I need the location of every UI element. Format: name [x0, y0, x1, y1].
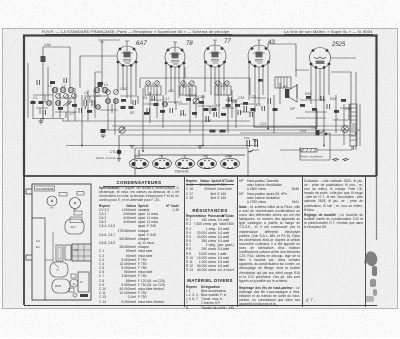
socket labels [134, 154, 232, 174]
resistor R35 [306, 96, 311, 99]
svg-text:R14: R14 [330, 97, 336, 101]
bottom rule [24, 305, 377, 307]
svg-text:C11: C11 [168, 89, 174, 93]
inner box output [254, 110, 317, 127]
wire link w23 [120, 96, 157, 104]
chassis label vue arriere [35, 186, 55, 191]
wire link w27 [300, 100, 352, 112]
wire link w30 [178, 96, 252, 112]
wire left v9 [87, 90, 89, 121]
resistor R27 [160, 110, 165, 113]
capacitor C24 [311, 126, 320, 136]
wire V1 pin drops [118, 63, 136, 104]
svg-text:C1: C1 [33, 96, 37, 100]
wire link w26 [240, 98, 266, 104]
pilot lamp LP [342, 126, 349, 133]
rule v right edge [364, 177, 367, 307]
resistor R2 [39, 101, 44, 104]
wire right v3 [359, 104, 361, 146]
capacitor C41 [321, 96, 324, 101]
capacitor C39 [327, 104, 330, 109]
wire antenna lead [43, 47, 70, 118]
svg-text:2525: 2525 [225, 154, 232, 158]
capacitor C38 [262, 106, 265, 111]
svg-text:2525: 2525 [331, 42, 346, 48]
tube V2 78 [165, 47, 185, 68]
chassis box C20 [70, 217, 82, 223]
resistor R12 [220, 130, 226, 133]
mains plug arrows [332, 158, 349, 161]
col3 table [186, 179, 234, 310]
rule h under cond header [103, 185, 175, 188]
svg-text:C17: C17 [163, 97, 169, 101]
col2 condensateurs table [99, 181, 179, 304]
capacitor C33 [79, 108, 82, 113]
grid cap stubs [125, 40, 261, 47]
wire mid v1 [190, 88, 203, 145]
tube V3 77 [204, 45, 226, 67]
svg-text:77: 77 [224, 39, 231, 45]
coil L4 [94, 87, 100, 93]
svg-text:R9: R9 [256, 103, 260, 107]
wire link w29 [296, 104, 349, 120]
capacitor C43 [181, 110, 184, 115]
wire V2 pin drops [166, 63, 184, 104]
resistor R36 [341, 99, 346, 102]
trimmer CT5 [106, 90, 111, 95]
svg-text:43: 43 [203, 154, 207, 158]
output transformer T4 [275, 77, 291, 88]
capacitor C22 [244, 136, 250, 147]
resistor R37 [186, 98, 191, 101]
svg-text:L6: L6 [186, 82, 190, 86]
resistor R1 [31, 101, 36, 104]
svg-text:R1: R1 [143, 96, 147, 100]
svg-text:L8: L8 [221, 82, 225, 86]
wire link w20 [33, 95, 76, 105]
rule v col2-col3 [183, 177, 186, 307]
rule h under col3 top [186, 183, 234, 186]
resistor R4 [129, 106, 134, 109]
svg-text:L4: L4 [150, 82, 154, 86]
wire link w22 [36, 108, 77, 118]
wire power top [295, 58, 356, 72]
chassis coil box 2 [65, 245, 71, 260]
trimmer CT10 [190, 81, 194, 85]
node A junction dots [42, 118, 357, 152]
trimmer CT12 [225, 81, 229, 85]
coil L7 [55, 100, 60, 105]
resistor R11 [210, 130, 216, 133]
chassis antenna tabs [26, 189, 32, 260]
wire left v5 [59, 93, 61, 118]
ballast resistor RB [350, 104, 357, 150]
resistor R24 [87, 110, 92, 113]
chassis tube 77 top [47, 196, 57, 210]
svg-text:C21: C21 [260, 122, 266, 126]
resistor R3 [121, 106, 126, 109]
chassis trimmer box 1 [59, 193, 67, 197]
svg-text:R7: R7 [216, 104, 220, 108]
resistor R20 [50, 81, 55, 84]
wire link w25 [198, 106, 234, 114]
tone control CTL [110, 135, 121, 162]
chassis HP box [78, 272, 89, 292]
svg-text:C22: C22 [244, 136, 250, 140]
trimmer CT2 [56, 94, 61, 99]
svg-text:Résist. et circuit: Résist. et circuit [96, 156, 116, 160]
resistor R7 [212, 108, 217, 111]
capacitor C35 [170, 108, 173, 113]
capacitor C1 [84, 97, 87, 109]
svg-text:78: 78 [159, 154, 163, 158]
chassis tube 77b blob [50, 262, 68, 277]
antenna coupler [98, 82, 103, 87]
wire link w21 [84, 96, 118, 113]
svg-text:43: 43 [73, 282, 77, 286]
chassis gang condenser [72, 244, 91, 261]
header right underline [284, 34, 373, 35]
svg-text:43: 43 [268, 40, 275, 46]
capacitor C42 [152, 96, 155, 101]
socket S 43 [198, 155, 217, 169]
socket box [135, 148, 248, 175]
rule v col4-col5 [301, 177, 304, 307]
speaker SP [283, 84, 297, 102]
svg-text:C23: C23 [253, 148, 259, 152]
chassis transfo compartment [32, 218, 45, 300]
resistor R6 [204, 108, 209, 111]
coil L6 [46, 100, 51, 105]
svg-text:78: 78 [73, 208, 77, 212]
trimmer CT4 [72, 94, 77, 99]
switch S2 [317, 130, 327, 135]
wire mid v2 [228, 90, 236, 133]
capacitor C31 [64, 78, 67, 83]
volume potentiometer P1 [119, 127, 125, 133]
wire V5 pin drops [311, 64, 329, 145]
trimmer CT6 [114, 90, 119, 95]
resistor R8 [226, 104, 231, 107]
wire right v2 [351, 72, 356, 150]
socket wire filament string [139, 150, 253, 155]
wire bus B6 [66, 145, 258, 147]
svg-text:R16: R16 [345, 107, 351, 111]
wire bus B1 [32, 119, 250, 122]
svg-text:VUE ARRIÈRE: VUE ARRIÈRE [36, 186, 54, 191]
header left underline [45, 34, 232, 35]
chassis small box L [74, 211, 82, 215]
wire left v7 [74, 88, 76, 121]
socket S 6A7 [130, 155, 149, 169]
chassis tube 6A7 [65, 219, 84, 234]
ground G2 [101, 135, 106, 138]
wire left v1 [27, 63, 29, 118]
chassis dial cord [45, 232, 59, 268]
capacitor C23 [253, 140, 259, 152]
header left text [42, 29, 229, 34]
tube V5 2525 [310, 48, 331, 69]
wire interstage 1 [143, 88, 150, 151]
wire bus B4 [120, 134, 356, 136]
svg-text:2525: 2525 [55, 284, 62, 288]
coil L9 [113, 98, 118, 103]
wire left v8 [81, 95, 83, 146]
schematic bottom divider [24, 175, 377, 177]
socket S 77 [176, 155, 195, 169]
resistor R29 [221, 113, 226, 116]
trimmer CT1 [193, 98, 199, 104]
svg-text:L1: L1 [48, 84, 52, 88]
rule v col3-col4 [236, 177, 239, 307]
svg-text:Filaments: Filaments [175, 170, 189, 174]
capacitor C44 [229, 97, 232, 102]
capacitor C5 [244, 106, 247, 112]
svg-text:C18: C18 [205, 119, 211, 123]
wire left v2 [32, 100, 34, 118]
wire link w28 [280, 146, 352, 150]
resistor R25 [121, 99, 126, 102]
right edge smudges [364, 251, 377, 302]
socket S 78 [153, 155, 172, 169]
resistor R31 [300, 104, 305, 107]
svg-text:L3: L3 [104, 83, 108, 87]
ground G5 [253, 140, 258, 143]
chassis tube 43 circle [70, 279, 78, 287]
capacitor C32 [43, 110, 46, 115]
coil L11 [96, 105, 101, 110]
IF transformer T3 [215, 86, 231, 95]
antenna series cap [41, 56, 46, 62]
capacitor C7 blob [101, 129, 106, 133]
svg-text:CTL: CTL [110, 150, 116, 154]
chassis compartment labels [36, 239, 40, 249]
coil L2 [60, 87, 66, 93]
wire left v10 [95, 72, 102, 118]
svg-text:HP: HP [290, 107, 295, 111]
col5 text [304, 179, 363, 212]
tube V1 6A7 [117, 46, 137, 67]
svg-text:HP: HP [283, 85, 287, 89]
svg-text:C4: C4 [84, 91, 88, 95]
coil L5 [102, 87, 108, 93]
svg-text:C24: C24 [300, 129, 306, 133]
capacitor C3 [147, 108, 150, 114]
svg-text:77: 77 [50, 206, 54, 210]
wire grid cap V1 [80, 56, 117, 88]
svg-text:I: I [337, 117, 338, 121]
component ref labels [33, 43, 351, 133]
capacitor C34 [133, 100, 136, 105]
trimmer CT9 [181, 81, 185, 85]
wire left v12 [114, 98, 116, 135]
svg-text:4 7 ,: 4 7 , [306, 297, 316, 304]
antenna [98, 40, 120, 88]
outer frame right lower faded [376, 176, 378, 240]
wire mid v3 [274, 83, 280, 133]
wire left v4 [52, 88, 54, 118]
capacitor C30 [37, 80, 40, 85]
svg-text:C7: C7 [70, 112, 74, 116]
wire left v3 [47, 67, 49, 100]
resistor R28 [199, 101, 204, 104]
capacitor C36 [214, 112, 217, 117]
trimmer CT7 [146, 81, 150, 85]
wire top link V2-V3 AVC rail [140, 67, 250, 95]
resistor R21 [98, 82, 103, 85]
svg-text:6A7: 6A7 [136, 41, 147, 47]
col4 text [239, 179, 299, 204]
wire left v11 [107, 95, 109, 130]
capacitor C37 [238, 110, 241, 115]
chassis tube 2525 blob [52, 279, 70, 293]
trimmer CT3 [64, 94, 69, 99]
coil L8 [105, 98, 110, 103]
chassis small parts [69, 274, 88, 297]
ground G3 [130, 146, 135, 149]
wire V4 pin drops [249, 62, 268, 128]
chassis layout box [32, 184, 91, 300]
tube V4 43 [248, 45, 270, 67]
IF transformer T1 [145, 86, 161, 95]
heater resistor chauffante [300, 149, 323, 159]
resistor R5 [154, 103, 159, 106]
resistor R38 [192, 112, 197, 115]
resistor R9 [251, 108, 256, 111]
IF transformer T2 [180, 86, 196, 95]
wire bus B2 [112, 125, 356, 127]
capacitor C45 [250, 112, 253, 117]
ground G4 [198, 146, 203, 149]
resistor R39 [235, 104, 240, 107]
coil L3 [68, 87, 74, 93]
svg-text:R8: R8 [232, 100, 236, 104]
wire left v6 [67, 95, 69, 121]
resistor R26 [144, 112, 149, 115]
svg-text:R2: R2 [130, 111, 134, 115]
capacitor C2 [92, 100, 95, 106]
svg-text:78: 78 [186, 41, 193, 47]
chassis tube 78 top [70, 198, 81, 213]
svg-text:CV: CV [74, 248, 78, 252]
outer frame [24, 36, 377, 177]
svg-text:Cr: Cr [80, 280, 83, 284]
svg-text:6A7: 6A7 [134, 154, 140, 158]
resistor R32 [312, 108, 317, 111]
svg-text:CAV: CAV [44, 43, 52, 47]
resistor R40 [258, 79, 263, 82]
wire right v1 [336, 95, 344, 145]
socket S 2525 [221, 155, 240, 169]
capacitor C6 [268, 98, 271, 104]
switch S1 [63, 101, 72, 106]
wire bus B3 [101, 129, 360, 131]
ground G1 [39, 118, 44, 124]
coil L1 [52, 87, 58, 93]
svg-text:CA6: CA6 [198, 95, 205, 99]
resistor R22 [58, 107, 63, 110]
svg-text:6A7: 6A7 [71, 225, 77, 229]
svg-text:L2: L2 [62, 84, 66, 88]
svg-text:C19: C19 [238, 96, 244, 100]
trimmer CT11 [216, 81, 220, 85]
resistor R33 [334, 110, 339, 113]
capacitor C4 [206, 116, 209, 122]
svg-text:C21: C21 [250, 95, 256, 99]
svg-text:CA2: CA2 [120, 87, 127, 91]
trimmer CT8 [155, 81, 159, 85]
svg-text:77: 77 [56, 268, 60, 272]
wire link w24 [150, 100, 182, 110]
coil L10 [162, 101, 167, 106]
svg-text:Eo: Eo [36, 245, 40, 249]
svg-text:77: 77 [182, 154, 186, 158]
resistor R30 [243, 102, 248, 105]
svg-text:Cd: Cd [36, 239, 40, 243]
wire filter h1 [240, 133, 330, 160]
header right text [284, 29, 372, 34]
chassis coil box 1 [56, 245, 63, 261]
wire interstage 2 [157, 90, 163, 128]
outer frame left lower [23, 176, 25, 305]
svg-text:R15: R15 [305, 92, 311, 96]
resistor R23 [72, 104, 77, 107]
svg-text:Résist. chauffante: Résist. chauffante [300, 155, 323, 159]
wire V3 pin drops [205, 62, 224, 118]
chassis trimmer box 2 [77, 192, 84, 196]
wire plate lead 43 [268, 44, 296, 77]
resistor R10 [273, 108, 278, 111]
